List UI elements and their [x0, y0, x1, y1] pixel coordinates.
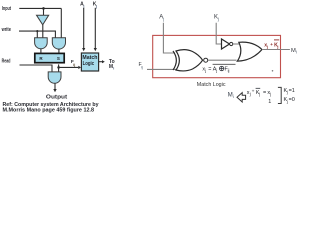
- wire AND1 output: [40, 49, 42, 53]
- svg-text:write: write: [1, 27, 11, 33]
- svg-text:ij: ij: [73, 63, 75, 67]
- svg-text:i: i: [113, 66, 114, 70]
- OR gate U4: [237, 42, 262, 61]
- arrow hollow left: [237, 93, 246, 102]
- wire inverter output to OR: [233, 43, 240, 45]
- wire Fij to match logic box: [59, 66, 79, 68]
- svg-text:j: j: [276, 45, 278, 49]
- svg-text:j: j: [95, 4, 97, 8]
- svg-text:j: j: [286, 90, 288, 95]
- svg-text:j: j: [286, 99, 288, 104]
- wire read horizontal: [20, 65, 53, 72]
- node junction on write line: [36, 30, 38, 32]
- artifact dot: [272, 70, 274, 72]
- inverter (input complement): [37, 15, 49, 25]
- svg-text:Read: Read: [2, 58, 11, 64]
- svg-text:j: j: [215, 68, 217, 73]
- svg-text:j: j: [266, 45, 268, 49]
- flip-flop cell Fij (R S latch): [35, 53, 64, 62]
- wire OR output to Mi: [262, 49, 290, 51]
- wire input right branch down to AND2: [60, 8, 62, 37]
- wire cell output down: [58, 64, 60, 72]
- wire Kj arrow into match logic: [94, 8, 96, 48]
- wire input junction to inverter: [43, 8, 45, 15]
- svg-text:j: j: [217, 16, 219, 21]
- wire write horizontal: [19, 31, 55, 38]
- detail box match logic (red): [153, 35, 281, 77]
- svg-text:j: j: [258, 92, 260, 97]
- svg-text:Input: Input: [2, 6, 11, 12]
- AND gate 1 (R side, pointing down): [35, 38, 48, 49]
- wire Fij into XNOR: [147, 68, 176, 70]
- AND gate output (read gate): [48, 72, 61, 83]
- svg-text:=0: =0: [289, 97, 295, 103]
- match logic box U1: [81, 53, 98, 71]
- XNOR gate U2: [173, 51, 176, 70]
- svg-text:=1: =1: [289, 88, 295, 94]
- svg-text:+: +: [270, 42, 273, 47]
- svg-text:j: j: [249, 92, 251, 97]
- svg-text:Logic: Logic: [83, 61, 95, 67]
- AND gate 2 (S side, pointing down): [52, 38, 65, 49]
- wire Kj into inverter: [216, 23, 221, 44]
- svg-text:j: j: [269, 92, 271, 97]
- svg-text:i: i: [233, 94, 234, 99]
- wire write tick to AND1: [36, 31, 38, 38]
- wire Aj arrow into match logic: [83, 8, 85, 48]
- wire XNOR output to OR: [208, 59, 237, 61]
- node junction Fij: [57, 66, 60, 69]
- svg-text:j: j: [82, 4, 84, 8]
- svg-text:1: 1: [268, 99, 271, 105]
- svg-text:S: S: [57, 56, 60, 61]
- node junction on input line: [42, 7, 45, 10]
- wire AND2 output: [58, 49, 60, 53]
- svg-text:=: =: [263, 90, 266, 96]
- bracket right: [278, 87, 281, 103]
- wire inverter output down: [42, 25, 44, 38]
- svg-text:Output: Output: [46, 94, 67, 100]
- svg-text:+: +: [252, 90, 255, 95]
- wire match logic output: [99, 61, 102, 63]
- svg-text:=: =: [208, 66, 211, 72]
- wire Aj into XNOR: [163, 23, 175, 53]
- svg-text:j: j: [204, 68, 206, 73]
- svg-text:M.Morris Mano page 459 figure: M.Morris Mano page 459 figure 12.8: [3, 108, 95, 114]
- inverter U3 (Kj complement): [222, 39, 230, 49]
- svg-text:ij: ij: [228, 68, 230, 73]
- wire input horizontal: [19, 7, 61, 9]
- wire output arrow: [54, 83, 56, 89]
- svg-text:Match Logic: Match Logic: [197, 82, 226, 88]
- svg-text:ij: ij: [141, 65, 143, 70]
- svg-text:i: i: [296, 49, 297, 54]
- svg-text:j: j: [162, 16, 164, 21]
